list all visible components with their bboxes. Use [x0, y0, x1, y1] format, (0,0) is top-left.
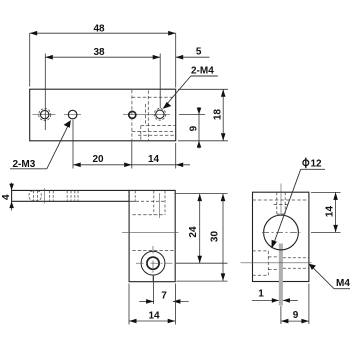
svg-text:9: 9	[188, 125, 199, 131]
svg-text:5: 5	[196, 47, 202, 58]
dimension 30	[176, 194, 227, 282]
top view hole H4 (2-M4 tapped hole)	[154, 109, 166, 121]
label phi12 with leader	[273, 169, 326, 247]
top view hidden bore lines (dashed)	[132, 97, 176, 131]
front view bar hidden slot (rounded dashed)	[29, 191, 41, 201]
label 2-M3 with leader	[10, 121, 70, 169]
dimension 9 (side view)	[281, 284, 309, 325]
side view hidden counterbore (left)	[253, 251, 280, 275]
dimension 18	[178, 89, 228, 141]
front view hidden bore top/bottom lines	[132, 215, 175, 251]
front view hole1 center line	[44, 188, 46, 204]
dimension 14 (side view)	[311, 192, 341, 232]
side view outline	[253, 192, 309, 281]
dimension 7	[139, 275, 188, 305]
dimension 5	[176, 56, 210, 58]
top view hole H1 (left tapped hole)	[39, 109, 51, 121]
top view hole H2 (2-M3 hole)	[68, 110, 77, 119]
top view outline	[30, 89, 176, 141]
side view hidden M4 top hole	[277, 193, 285, 214]
svg-text:14: 14	[148, 310, 160, 321]
dimension 38	[45, 54, 160, 131]
svg-text:18: 18	[213, 109, 224, 121]
svg-text:30: 30	[210, 231, 221, 243]
front view bar hidden hole lines	[49, 191, 135, 201]
svg-text:9: 9	[293, 310, 299, 321]
svg-text:38: 38	[93, 47, 105, 58]
dimension 48	[30, 33, 176, 87]
svg-text:M4: M4	[336, 278, 350, 289]
front view bore center line	[122, 231, 179, 233]
dimension 20	[73, 120, 132, 169]
side view bore circle (phi 12)	[264, 215, 299, 250]
front view bar outline	[12, 190, 130, 201]
dimension 14 (top view)	[132, 143, 190, 169]
front view hidden M4 top hole	[154, 191, 165, 218]
front view counterbore center cross	[136, 246, 174, 282]
svg-text:12: 12	[311, 159, 323, 170]
front view counterbored hole C1	[141, 251, 165, 275]
svg-text:20: 20	[92, 154, 104, 165]
svg-text:24: 24	[188, 226, 199, 238]
svg-text:14: 14	[324, 206, 335, 218]
top view hidden block left edge (dashed)	[131, 90, 133, 140]
svg-text:2-M4: 2-M4	[191, 66, 214, 77]
top view hole H3 (small thick hole)	[129, 111, 136, 118]
front view block outline	[129, 190, 175, 281]
label M4 with leader	[309, 264, 350, 289]
side view bore horizontal center line	[262, 231, 301, 233]
dimension 9 (top view)	[179, 107, 205, 149]
svg-text:4: 4	[1, 194, 12, 200]
svg-text:1: 1	[258, 289, 264, 300]
side view horizontal center line	[241, 262, 312, 264]
label 2-M4 with leader	[164, 76, 218, 108]
side view M4 clamp hole hidden lines	[283, 258, 309, 269]
front view hidden bar bottom inside block	[129, 200, 165, 202]
dimension 1	[252, 299, 298, 301]
side view hidden strip bottom lines	[253, 200, 309, 205]
svg-text:7: 7	[161, 291, 167, 302]
top view hidden counterbore lines (dashed)	[138, 91, 176, 141]
dimension 4	[11, 183, 13, 211]
side view slit (gray band)	[279, 244, 283, 306]
side view vertical center line	[280, 184, 282, 217]
dimension 24	[175, 194, 228, 264]
top view hole center row line	[33, 114, 171, 116]
svg-text:14: 14	[148, 154, 160, 165]
svg-text:2-M3: 2-M3	[13, 159, 36, 170]
dimension 14 (front view)	[129, 284, 175, 325]
svg-text:48: 48	[93, 23, 105, 34]
